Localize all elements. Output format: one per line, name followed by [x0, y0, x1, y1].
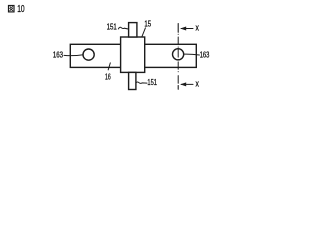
block 15 (central body)	[121, 37, 145, 72]
svg-text:163: 163	[200, 50, 210, 59]
leader for 15	[142, 28, 145, 37]
leader for 151 bottom	[136, 82, 147, 83]
arrow x bottom	[181, 83, 193, 85]
hole 163 left (circle)	[83, 49, 94, 60]
svg-text:10: 10	[17, 4, 25, 15]
centerline tick bottom	[177, 86, 179, 90]
centerline tick top	[177, 24, 179, 33]
bar 16 (horizontal plate)	[70, 44, 196, 67]
leader for 163 left	[64, 54, 83, 57]
svg-text:x: x	[196, 79, 200, 89]
arrow x top	[181, 28, 193, 30]
leader for 151 top	[118, 27, 128, 29]
svg-text:16: 16	[105, 72, 111, 81]
leader for 16	[108, 63, 110, 70]
tab 151 top	[129, 23, 137, 37]
leader for 163 right	[184, 53, 200, 56]
figure number glyph 図	[9, 6, 15, 12]
svg-text:151: 151	[107, 22, 118, 31]
hole 163 right (circle)	[173, 49, 184, 60]
tab 151 bottom	[129, 72, 136, 89]
svg-text:151: 151	[147, 78, 157, 87]
svg-text:x: x	[196, 23, 200, 33]
centerline X-X (dash-dot)	[177, 34, 179, 83]
svg-text:15: 15	[144, 20, 151, 29]
svg-text:163: 163	[53, 51, 64, 60]
